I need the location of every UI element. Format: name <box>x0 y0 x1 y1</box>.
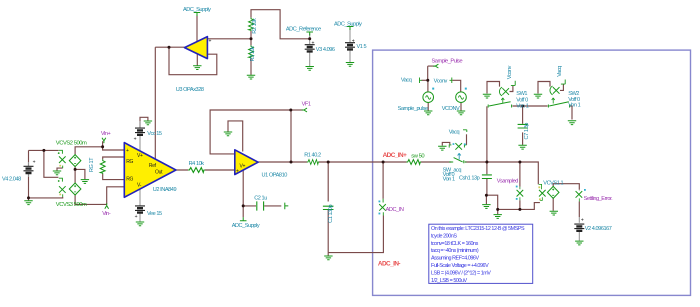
svg-text:VCVS3 500m: VCVS3 500m <box>56 202 87 208</box>
svg-text:Vin+: Vin+ <box>101 131 111 137</box>
svg-text:+: + <box>236 168 239 174</box>
svg-text:U1 OPA810: U1 OPA810 <box>262 173 288 179</box>
svg-text:+: + <box>209 39 212 45</box>
svg-text:C2 1u: C2 1u <box>254 196 267 202</box>
svg-text:Vee 15: Vee 15 <box>147 211 162 217</box>
svg-text:tconv=18 tCLK = 160ns: tconv=18 tCLK = 160ns <box>431 241 479 247</box>
svg-text:Settling_Error.: Settling_Error. <box>584 196 614 202</box>
svg-text:Von 1: Von 1 <box>516 103 528 109</box>
svg-text:V-: V- <box>137 182 142 188</box>
svg-text:C7 1.3p: C7 1.3p <box>524 123 530 140</box>
svg-text:Sample_pulse: Sample_pulse <box>398 106 428 112</box>
svg-text:LSB = (4.096V / (2^12) = 1mV: LSB = (4.096V / (2^12) = 1mV <box>431 270 491 276</box>
svg-text:ADC_Supply: ADC_Supply <box>183 7 211 13</box>
svg-text:ADC_Supply: ADC_Supply <box>334 22 362 28</box>
svg-text:R4 10k: R4 10k <box>189 161 205 167</box>
svg-text:RG: RG <box>126 176 133 182</box>
svg-text:ADC_IN: ADC_IN <box>386 207 404 213</box>
svg-text:Sample_Pulse: Sample_Pulse <box>432 58 463 64</box>
svg-text:ADC_Supply: ADC_Supply <box>232 223 260 229</box>
svg-text:RG 1T: RG 1T <box>89 157 95 172</box>
svg-text:VF1: VF1 <box>302 101 311 107</box>
svg-text:Out: Out <box>155 169 163 175</box>
svg-text:VCVS2 500m: VCVS2 500m <box>56 141 87 147</box>
svg-text:R1 40.2: R1 40.2 <box>304 152 321 158</box>
svg-text:V2 4.096167: V2 4.096167 <box>585 226 612 232</box>
svg-text:Vconv: Vconv <box>507 65 513 79</box>
svg-text:Vacq: Vacq <box>401 77 412 83</box>
svg-text:tacq =~40ns (minimum): tacq =~40ns (minimum) <box>431 248 479 254</box>
svg-text:V+: V+ <box>137 153 143 159</box>
svg-text:VCONV: VCONV <box>442 106 460 112</box>
svg-text:C1 130p: C1 130p <box>328 205 334 223</box>
svg-text:V1 5: V1 5 <box>357 44 367 50</box>
svg-text:V3 4.096: V3 4.096 <box>316 47 335 53</box>
svg-text:VCVS1 1: VCVS1 1 <box>543 180 563 186</box>
svg-text:R2 10k: R2 10k <box>252 18 258 34</box>
svg-text:Von 1: Von 1 <box>443 177 455 183</box>
svg-text:Assuming REF=4.096V: Assuming REF=4.096V <box>431 256 479 262</box>
svg-text:tcycle 200nS: tcycle 200nS <box>431 233 457 239</box>
svg-text:On this example: LTC2315-12 12: On this example: LTC2315-12 12-B @ 5MSPS <box>431 226 525 232</box>
svg-text:1/2_LSB = 500uV: 1/2_LSB = 500uV <box>431 278 468 284</box>
svg-text:sw 50: sw 50 <box>411 154 424 160</box>
svg-text:V4 2.048: V4 2.048 <box>2 177 21 183</box>
svg-text:ADC_IN-: ADC_IN- <box>378 260 400 267</box>
svg-text:ADC_IN+: ADC_IN+ <box>383 152 407 159</box>
svg-text:V+: V+ <box>240 164 246 170</box>
svg-text:Csh1 13p: Csh1 13p <box>459 176 480 182</box>
svg-text:Vcc 15: Vcc 15 <box>147 131 162 137</box>
svg-text:Full-Scale Voltage = +4.096V: Full-Scale Voltage = +4.096V <box>431 263 489 269</box>
svg-text:Vacq: Vacq <box>449 129 460 135</box>
svg-text:Vin-: Vin- <box>102 211 111 217</box>
svg-text:ADC_Reference: ADC_Reference <box>286 26 321 32</box>
svg-text:Vsampled: Vsampled <box>497 179 519 185</box>
svg-text:RG: RG <box>126 159 133 165</box>
svg-text:Vacq: Vacq <box>557 66 563 77</box>
svg-text:SW1: SW1 <box>516 91 527 97</box>
svg-text:Von 1: Von 1 <box>568 103 580 109</box>
svg-text:Vconv: Vconv <box>434 79 448 85</box>
svg-text:U2 INA849: U2 INA849 <box>153 187 177 193</box>
svg-text:U3 OPAx328: U3 OPAx328 <box>176 87 204 93</box>
svg-text:R3 10k: R3 10k <box>250 46 256 62</box>
svg-text:+: + <box>126 148 129 154</box>
svg-text:Ref: Ref <box>149 163 157 169</box>
